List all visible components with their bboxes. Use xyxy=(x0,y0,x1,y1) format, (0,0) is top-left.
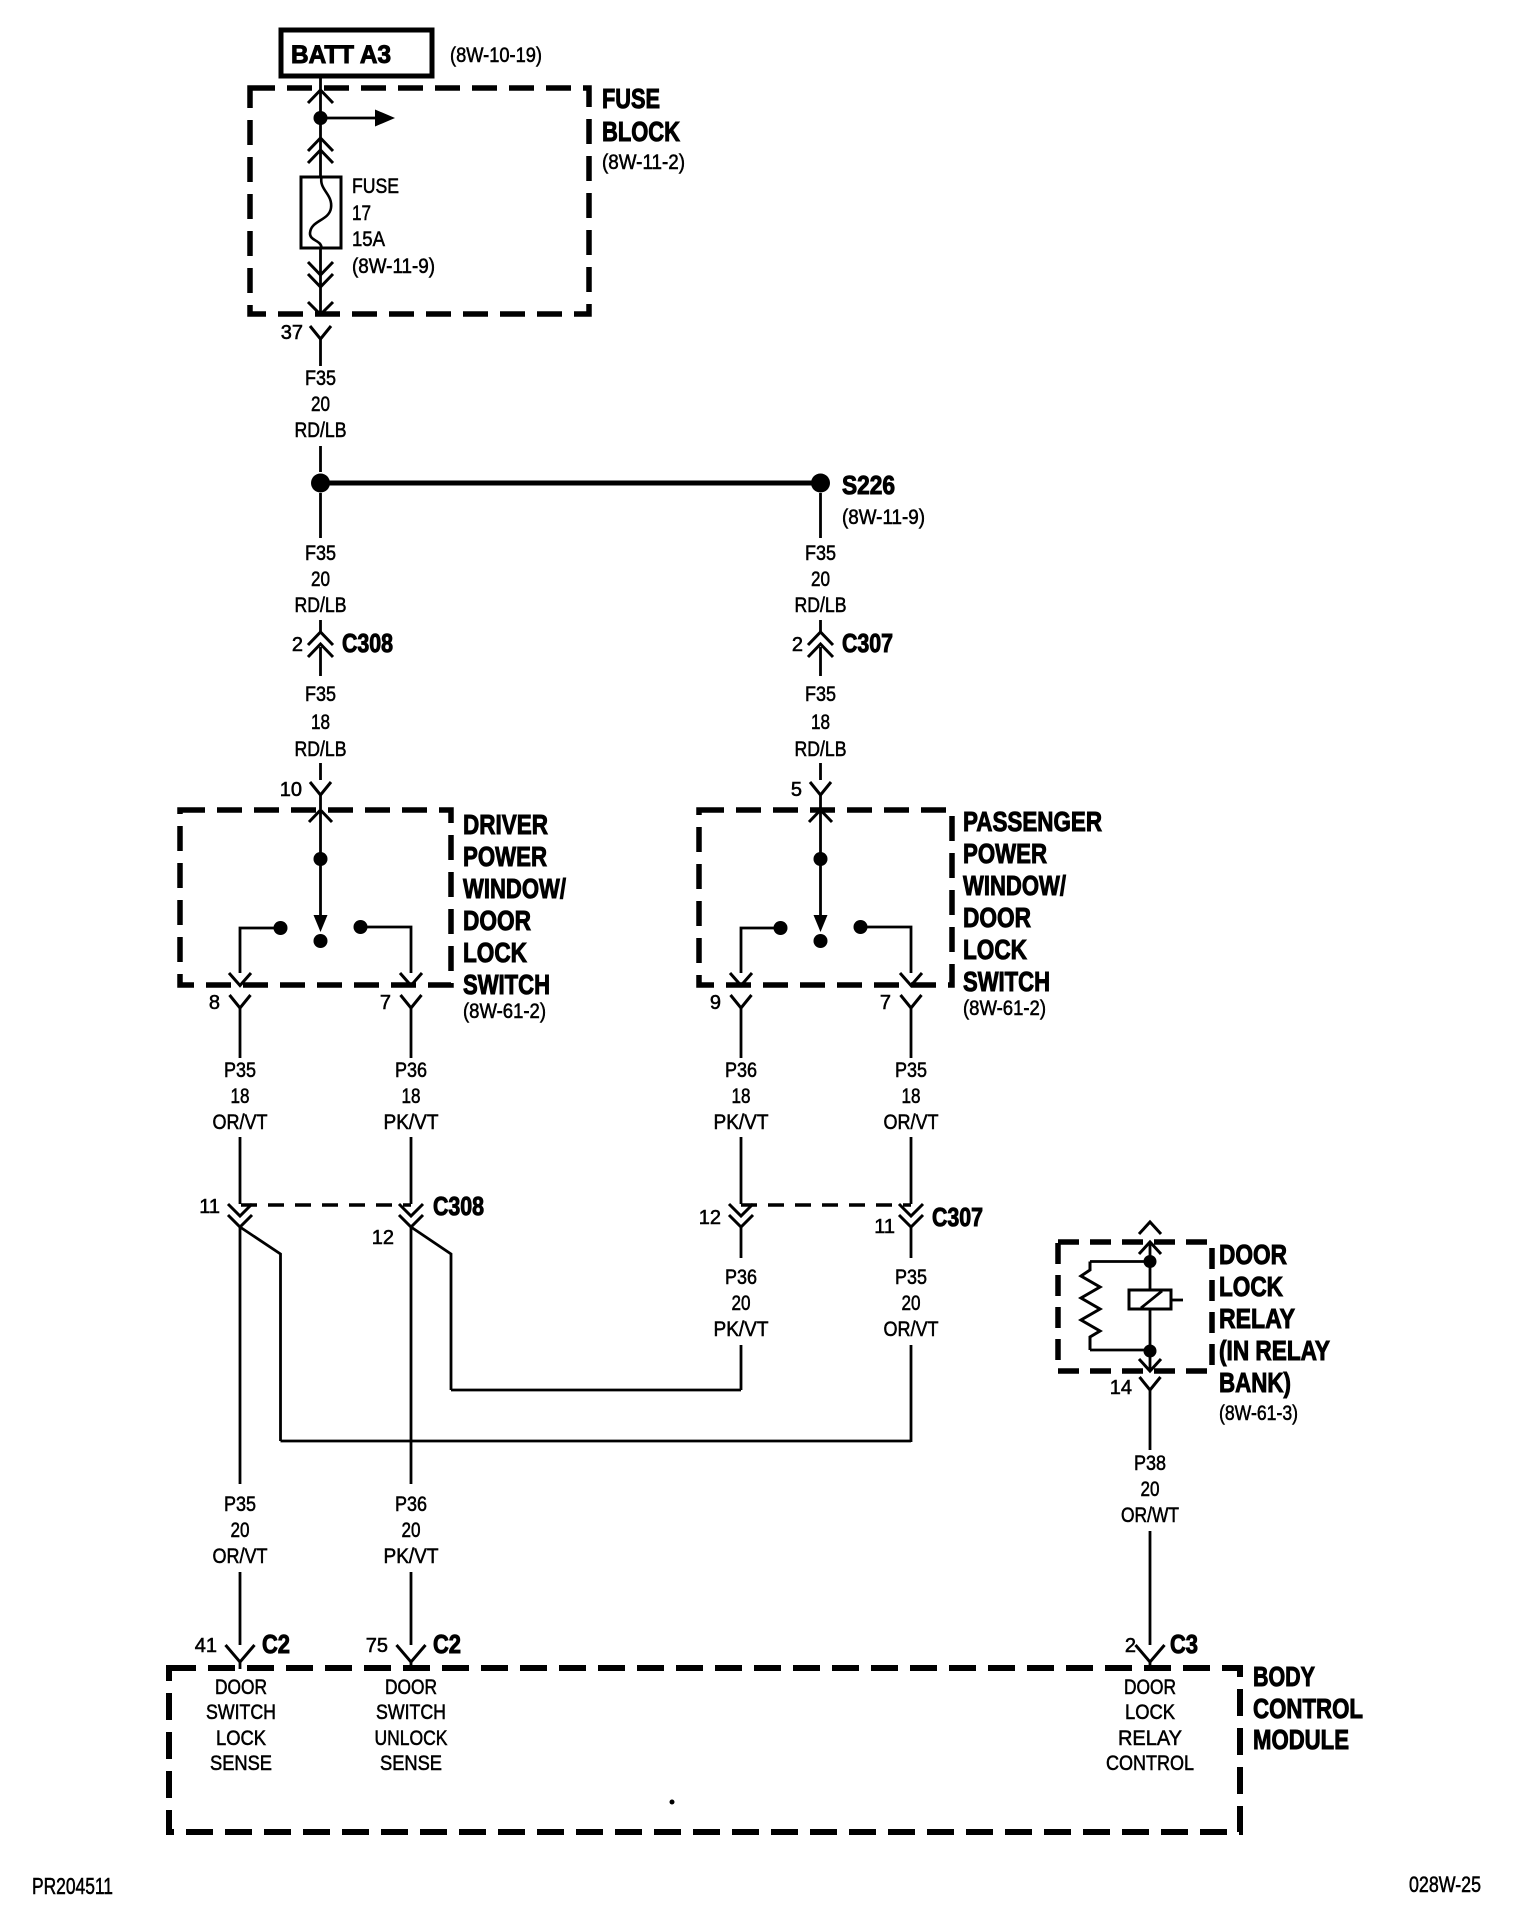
svg-text:C307: C307 xyxy=(842,628,893,658)
svg-text:RD/LB: RD/LB xyxy=(795,738,847,761)
svg-text:(8W-10-19): (8W-10-19) xyxy=(450,44,542,67)
svg-text:(8W-61-2): (8W-61-2) xyxy=(463,1000,546,1023)
svg-text:SWITCH: SWITCH xyxy=(463,969,550,1000)
svg-text:RELAY: RELAY xyxy=(1219,1303,1295,1334)
svg-text:P35: P35 xyxy=(224,1493,256,1516)
svg-text:11: 11 xyxy=(199,1196,220,1218)
fuse block name label xyxy=(602,83,685,174)
svg-text:20: 20 xyxy=(311,568,330,591)
svg-text:20: 20 xyxy=(811,568,830,591)
svg-text:DOOR: DOOR xyxy=(385,1676,437,1699)
connector C307 pin 11 chevrons xyxy=(899,1204,923,1227)
connector C307 pin 12 chevrons xyxy=(729,1204,753,1227)
svg-text:RELAY: RELAY xyxy=(1118,1727,1182,1750)
svg-text:SENSE: SENSE xyxy=(210,1752,272,1775)
wire stub pin7 to P35 label passenger xyxy=(910,1021,913,1058)
wire P38 20 OR/WT label xyxy=(1121,1452,1179,1527)
wire down to BCM pin 41 xyxy=(239,1572,242,1645)
pin 37 connector at fuse block xyxy=(281,322,331,353)
chevron above door lock relay (points up) xyxy=(1139,1222,1161,1234)
svg-text:P35: P35 xyxy=(895,1266,927,1289)
svg-text:C3: C3 xyxy=(1170,1629,1198,1659)
svg-text:SWITCH: SWITCH xyxy=(376,1701,446,1724)
wire P35 20 OR/VT label above C2 xyxy=(213,1493,268,1568)
svg-text:LOCK: LOCK xyxy=(463,937,527,968)
wire stub pin8 to P35 label xyxy=(239,1021,242,1058)
fuse value label xyxy=(352,175,435,278)
driver switch unlock contact xyxy=(354,920,368,934)
node door switch unlock sense xyxy=(375,1676,448,1775)
svg-text:2: 2 xyxy=(792,634,803,656)
wire stub above pin 5 xyxy=(819,763,822,780)
passenger switch center contact xyxy=(814,934,828,948)
svg-text:20: 20 xyxy=(311,393,330,416)
svg-text:P35: P35 xyxy=(895,1059,927,1082)
pin 14 connector below relay xyxy=(1110,1377,1161,1404)
double chevron below fuse (points down) xyxy=(308,262,333,287)
svg-text:WINDOW/: WINDOW/ xyxy=(463,873,566,904)
wire stub pin7 to P36 label xyxy=(410,1021,413,1058)
svg-text:12: 12 xyxy=(699,1207,721,1229)
svg-text:F35: F35 xyxy=(305,683,336,706)
wire F35 20 RD/LB label right branch xyxy=(795,542,847,617)
wire stub below left splice xyxy=(319,493,322,538)
splice S226 junction dot left xyxy=(311,474,330,493)
svg-text:12: 12 xyxy=(372,1227,394,1249)
svg-text:P36: P36 xyxy=(395,1059,427,1082)
svg-text:P35: P35 xyxy=(224,1059,256,1082)
svg-text:PK/VT: PK/VT xyxy=(714,1318,769,1341)
svg-text:37: 37 xyxy=(281,322,303,344)
connector C308 pin 12 chevrons xyxy=(399,1204,423,1227)
svg-text:RD/LB: RD/LB xyxy=(795,594,847,617)
wire stub pin9 to P36 label xyxy=(740,1021,743,1058)
chevron leaving driver switch left (points down) xyxy=(229,973,251,986)
svg-text:41: 41 xyxy=(195,1635,217,1657)
chevron leaving relay box (points down) xyxy=(1139,1359,1161,1371)
wire unlock contact to pin 7 xyxy=(861,927,912,973)
svg-text:BODY: BODY xyxy=(1253,1661,1315,1692)
passenger switch common feed wire xyxy=(819,810,822,917)
svg-text:DOOR: DOOR xyxy=(1219,1239,1287,1270)
wire branch arrow to other circuits xyxy=(321,110,396,127)
svg-text:CONTROL: CONTROL xyxy=(1106,1752,1194,1775)
svg-text:PK/VT: PK/VT xyxy=(714,1111,769,1134)
svg-text:CONTROL: CONTROL xyxy=(1253,1693,1363,1724)
svg-text:028W-25: 028W-25 xyxy=(1409,1872,1481,1897)
wire down to BCM pin 2 xyxy=(1149,1531,1152,1645)
svg-text:BANK): BANK) xyxy=(1219,1367,1291,1398)
wire P36 down to C307 xyxy=(740,1137,743,1204)
chevron leaving passenger switch left (points down) xyxy=(730,973,752,986)
svg-text:20: 20 xyxy=(902,1292,921,1315)
svg-text:18: 18 xyxy=(811,711,830,734)
relay coil feed wire xyxy=(1149,1242,1152,1290)
svg-text:RD/LB: RD/LB xyxy=(295,738,347,761)
svg-text:(8W-61-3): (8W-61-3) xyxy=(1219,1402,1298,1425)
svg-text:SENSE: SENSE xyxy=(380,1752,442,1775)
svg-text:2: 2 xyxy=(292,634,303,656)
wire F35 18 RD/LB label right xyxy=(795,683,847,761)
wire P36 straight down from C308 pin 12 xyxy=(410,1227,413,1484)
svg-text:18: 18 xyxy=(902,1085,921,1108)
svg-text:POWER: POWER xyxy=(463,841,547,872)
wire stub below C307 pin 12 xyxy=(740,1227,743,1258)
chevron entering fuse block (points up) xyxy=(308,90,333,103)
wire to suppression resistor top xyxy=(1090,1260,1150,1263)
svg-text:POWER: POWER xyxy=(963,838,1047,869)
svg-text:UNLOCK: UNLOCK xyxy=(375,1727,448,1750)
svg-text:DOOR: DOOR xyxy=(463,905,531,936)
node top of relay coil xyxy=(1144,1255,1157,1268)
chevron entering driver switch (points up) xyxy=(309,810,332,822)
fuse 17 15A symbol xyxy=(301,177,341,248)
svg-text:(8W-11-9): (8W-11-9) xyxy=(842,506,925,529)
node BATT A3 feed box xyxy=(281,30,432,76)
svg-text:20: 20 xyxy=(402,1519,421,1542)
svg-text:2: 2 xyxy=(1125,1635,1136,1657)
node on driver feed wire xyxy=(314,852,328,866)
svg-text:DOOR: DOOR xyxy=(1124,1676,1176,1699)
wire P35 18 OR/VT label xyxy=(213,1059,268,1134)
passenger switch unlock contact xyxy=(854,920,868,934)
svg-text:LOCK: LOCK xyxy=(216,1727,266,1750)
svg-text:F35: F35 xyxy=(305,542,336,565)
pin 8 connector below driver switch xyxy=(209,992,251,1021)
fuse block dashed enclosure xyxy=(250,88,589,314)
svg-text:(8W-61-2): (8W-61-2) xyxy=(963,997,1046,1020)
svg-text:20: 20 xyxy=(1141,1478,1160,1501)
svg-text:SWITCH: SWITCH xyxy=(206,1701,276,1724)
wire from fuse to fuse block edge xyxy=(319,248,322,314)
wire splice bus to S226 xyxy=(321,481,821,486)
wire P35 20 OR/VT label below C307 xyxy=(884,1266,939,1341)
svg-text:F35: F35 xyxy=(805,683,836,706)
svg-text:FUSE: FUSE xyxy=(352,175,399,198)
driver switch lock contact xyxy=(274,921,288,935)
wire P35 straight down from C308 pin 11 xyxy=(239,1227,242,1484)
svg-text:20: 20 xyxy=(231,1519,250,1542)
node door switch lock sense xyxy=(206,1676,276,1775)
svg-text:OR/VT: OR/VT xyxy=(884,1318,939,1341)
node on passenger feed wire xyxy=(814,852,828,866)
svg-text:18: 18 xyxy=(402,1085,421,1108)
chevron entering passenger switch (points up) xyxy=(809,810,832,822)
svg-text:OR/VT: OR/VT xyxy=(213,1545,268,1568)
wire P36 20 PK/VT label below C307 xyxy=(714,1266,769,1341)
svg-text:SWITCH: SWITCH xyxy=(963,966,1050,997)
wire P35 down to C308 xyxy=(239,1137,242,1204)
double chevron on feed wire (points up) xyxy=(308,138,333,163)
driver switch wiper arrowhead xyxy=(314,915,328,932)
svg-text:C308: C308 xyxy=(433,1191,484,1221)
connector C2 pin 41 at BCM xyxy=(195,1629,290,1669)
pin 7 connector below passenger switch xyxy=(880,992,922,1021)
wire stub above pin 10 xyxy=(319,763,322,780)
svg-text:(8W-11-9): (8W-11-9) xyxy=(352,255,435,278)
svg-text:F35: F35 xyxy=(305,367,336,390)
pin 9 connector below passenger switch xyxy=(710,992,752,1021)
svg-text:18: 18 xyxy=(732,1085,751,1108)
svg-text:OR/WT: OR/WT xyxy=(1121,1504,1179,1527)
connector C308 pin 2 xyxy=(292,628,393,676)
svg-text:14: 14 xyxy=(1110,1377,1132,1399)
svg-text:PASSENGER: PASSENGER xyxy=(963,806,1102,837)
svg-text:7: 7 xyxy=(380,992,391,1014)
unlock sense bus wire xyxy=(451,1389,741,1392)
svg-text:PR204511: PR204511 xyxy=(32,1873,113,1899)
svg-text:18: 18 xyxy=(231,1085,250,1108)
driver power window/door lock switch dashed box xyxy=(180,810,451,985)
wire stub below C307 pin 11 xyxy=(910,1227,913,1258)
body control module dashed box xyxy=(169,1668,1240,1832)
svg-text:20: 20 xyxy=(732,1292,751,1315)
svg-text:PK/VT: PK/VT xyxy=(384,1545,439,1568)
svg-text:8: 8 xyxy=(209,992,220,1014)
connector C307 body dashed line xyxy=(741,1203,911,1207)
svg-text:LOCK: LOCK xyxy=(1219,1271,1283,1302)
connector C3 pin 2 at BCM xyxy=(1125,1629,1198,1669)
connector C2 pin 75 at BCM xyxy=(366,1629,461,1669)
driver switch common feed wire xyxy=(319,810,322,917)
wire from OR/VT label to lock bus xyxy=(910,1345,913,1442)
connector C308 pin 11 chevrons xyxy=(228,1204,252,1227)
chevron leaving fuse block (points down) xyxy=(308,302,333,315)
svg-text:7: 7 xyxy=(880,992,891,1014)
svg-text:75: 75 xyxy=(366,1635,388,1657)
node bottom of relay coil xyxy=(1144,1345,1157,1358)
svg-text:17: 17 xyxy=(352,202,371,225)
svg-text:LOCK: LOCK xyxy=(963,934,1027,965)
svg-text:OR/VT: OR/VT xyxy=(213,1111,268,1134)
wire stub above F35 label xyxy=(319,353,322,366)
svg-text:DRIVER: DRIVER xyxy=(463,809,548,840)
svg-text:DOOR: DOOR xyxy=(963,902,1031,933)
resistor (relay coil suppression) xyxy=(1081,1262,1100,1351)
svg-text:(8W-11-2): (8W-11-2) xyxy=(602,151,685,174)
svg-text:RD/LB: RD/LB xyxy=(295,419,347,442)
lock sense bus wire xyxy=(281,1440,912,1443)
svg-text:18: 18 xyxy=(311,711,330,734)
svg-text:S226: S226 xyxy=(842,470,895,500)
connector C307 pin 2 xyxy=(792,628,893,676)
wire diagonal from C308 pin 12 xyxy=(411,1227,451,1390)
wire P36 down to C308 xyxy=(410,1137,413,1204)
wire unlock contact to pin 7 xyxy=(361,927,412,973)
relay coil symbol xyxy=(1129,1290,1183,1309)
wire P36 20 PK/VT label above C2 xyxy=(384,1493,439,1568)
wire down to BCM pin 75 xyxy=(410,1572,413,1645)
wire stub below RD/LB xyxy=(319,446,322,472)
svg-text:C2: C2 xyxy=(433,1629,461,1659)
svg-text:P36: P36 xyxy=(725,1266,757,1289)
svg-text:C2: C2 xyxy=(262,1629,290,1659)
body control module name label xyxy=(1253,1661,1363,1755)
wire relay coil to bottom node xyxy=(1149,1309,1152,1371)
pin 5 connector at passenger switch xyxy=(791,779,831,809)
wire F35 20 RD/LB label left branch xyxy=(295,542,347,617)
svg-text:15A: 15A xyxy=(352,228,385,251)
wire resistor bottom to node xyxy=(1090,1349,1150,1352)
svg-text:10: 10 xyxy=(280,779,302,801)
door lock relay dashed box xyxy=(1058,1242,1212,1371)
svg-text:11: 11 xyxy=(874,1216,895,1238)
svg-text:C307: C307 xyxy=(932,1202,983,1232)
svg-text:9: 9 xyxy=(710,992,721,1014)
svg-text:C308: C308 xyxy=(342,628,393,658)
passenger power window/door lock switch dashed box xyxy=(699,810,952,985)
chevron leaving passenger switch right (points down) xyxy=(900,973,922,986)
svg-text:FUSE: FUSE xyxy=(602,83,660,114)
svg-text:P36: P36 xyxy=(725,1059,757,1082)
wire from PK/VT label to unlock bus xyxy=(740,1345,743,1390)
wire lock contact to pin 8 xyxy=(240,928,281,973)
wire P35 down to C307 xyxy=(910,1137,913,1204)
svg-text:WINDOW/: WINDOW/ xyxy=(963,870,1066,901)
svg-text:BATT A3: BATT A3 xyxy=(291,41,391,69)
wire P36 18 PK/VT label xyxy=(384,1059,439,1134)
wire diagonal from C308 pin 11 xyxy=(240,1227,281,1441)
wire F35 20 RD/LB label xyxy=(295,367,347,442)
passenger switch lock contact xyxy=(774,921,788,935)
door lock relay name label xyxy=(1219,1239,1330,1425)
driver switch name label xyxy=(463,809,566,1023)
wire stub above C307 xyxy=(819,620,822,632)
splice S226 junction dot right xyxy=(811,474,830,493)
wire stub below right splice xyxy=(819,493,822,538)
svg-text:LOCK: LOCK xyxy=(1125,1701,1175,1724)
svg-text:DOOR: DOOR xyxy=(215,1676,267,1699)
svg-text:P36: P36 xyxy=(395,1493,427,1516)
chevron leaving driver switch right (points down) xyxy=(400,973,422,986)
junction node in fuse block xyxy=(314,111,328,125)
svg-text:PK/VT: PK/VT xyxy=(384,1111,439,1134)
pin 7 connector below driver switch xyxy=(380,992,422,1021)
svg-text:P38: P38 xyxy=(1134,1452,1166,1475)
wire stub above C308 xyxy=(319,620,322,632)
connector C308 body dashed line xyxy=(241,1203,411,1207)
svg-text:MODULE: MODULE xyxy=(1253,1724,1349,1755)
svg-text:RD/LB: RD/LB xyxy=(295,594,347,617)
node door lock relay control xyxy=(1106,1676,1194,1775)
passenger switch wiper arrowhead xyxy=(814,915,828,932)
svg-text:OR/VT: OR/VT xyxy=(884,1111,939,1134)
chevron entering relay box (points up) xyxy=(1139,1242,1161,1254)
wire from BATT A3 into fuse block xyxy=(319,78,322,177)
wire P35 18 OR/VT label passenger xyxy=(884,1059,939,1134)
passenger switch name label xyxy=(963,806,1102,1020)
wire P36 18 PK/VT label passenger xyxy=(714,1059,769,1134)
pin 10 connector at driver switch xyxy=(280,779,331,809)
svg-text:(IN RELAY: (IN RELAY xyxy=(1219,1335,1330,1366)
stray scan dot in BCM box xyxy=(670,1800,675,1805)
svg-text:BLOCK: BLOCK xyxy=(602,116,680,147)
svg-text:5: 5 xyxy=(791,779,802,801)
wire stub to P38 label xyxy=(1149,1404,1152,1450)
driver switch center contact xyxy=(314,934,328,948)
wire F35 18 RD/LB label left xyxy=(295,683,347,761)
wire lock contact to pin 9 xyxy=(741,928,781,973)
svg-text:F35: F35 xyxy=(805,542,836,565)
